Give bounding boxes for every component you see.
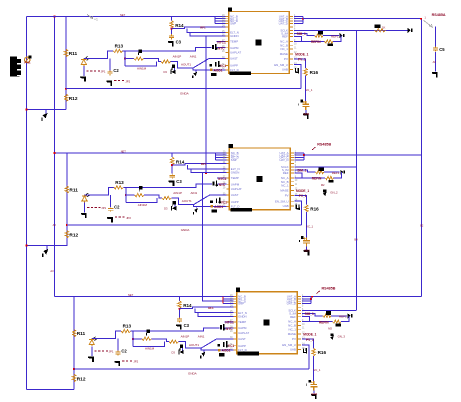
b2 arrow A1: [340, 170, 344, 175]
b3 label MASE net: [303, 333, 316, 337]
op-amp U2 right pins: [275, 151, 298, 208]
b1 power arrow glyph: [42, 110, 48, 121]
svg-text:UAPLAT: UAPLAT: [238, 331, 249, 335]
b3 ghost tick: [317, 291, 320, 294]
op-amp U2 left pins: [223, 151, 242, 208]
b1 label W27 net: [200, 26, 206, 30]
b2 wire W36: [191, 169, 227, 173]
b2 ground C4: [304, 250, 310, 255]
svg-text:UAPM: UAPM: [230, 46, 239, 50]
b1 wire W41a: [294, 40, 325, 42]
b3 junction RF: [179, 308, 181, 310]
svg-text:R14: R14: [176, 159, 185, 164]
b1 label D3: [163, 70, 167, 74]
b1 label D4 net: [218, 47, 225, 51]
b3 label M tick: [328, 327, 332, 331]
wire VB interblock 2-3: [202, 173, 223, 301]
b3 label pin65 net: [228, 344, 234, 348]
b3 dashed link C2: [122, 360, 132, 362]
b1 wire V5 bottom: [305, 76, 307, 101]
svg-text:GN_2: GN_2: [330, 191, 338, 195]
b2 label V5 net: [306, 225, 313, 229]
svg-text:JP2: JP2: [125, 79, 130, 83]
b2 wire RD-RE: [144, 195, 162, 198]
b2 ground C3: [169, 181, 175, 186]
b1 label R380 value: [382, 25, 386, 29]
b3 junction xV Hbot: [73, 368, 75, 370]
svg-text:RF1: RF1: [208, 306, 214, 310]
b3 wire P2: [201, 348, 234, 350]
b1 label RV2: [69, 96, 78, 102]
svg-text:D3: D3: [163, 70, 167, 74]
b2 label MASE net: [296, 189, 309, 193]
b3 label W35 net: [339, 315, 347, 319]
b3 ground C3: [176, 324, 182, 329]
b2 diode D4: [213, 180, 219, 186]
b3 resistor RE: [169, 340, 179, 343]
b1 wire V5 top: [294, 59, 306, 68]
b2 ground D2: [81, 213, 87, 218]
svg-text:SIM_1: SIM_1: [297, 169, 306, 173]
b2 resistor RF: [171, 157, 174, 165]
svg-text:R11: R11: [77, 331, 86, 337]
svg-text:D3: D3: [171, 350, 175, 354]
b1 label H-bot net: [180, 91, 189, 95]
b3 resistor RV2: [72, 374, 75, 382]
b3 label RC: [123, 324, 132, 329]
b3 wire left bus row: [223, 303, 234, 305]
b1 junction RF: [171, 28, 173, 30]
label C5: [439, 47, 445, 52]
svg-text:JP1: JP1: [109, 350, 114, 354]
svg-text:UAPM: UAPM: [238, 326, 247, 330]
b2 wire rail horizontal: [54, 152, 215, 154]
svg-text:JP1: JP1: [101, 206, 106, 210]
op-amp U1 bottom bar: [230, 72, 252, 76]
svg-text:M2: M2: [321, 183, 325, 187]
svg-text:REF: REF: [283, 171, 289, 175]
b1 wire P1: [171, 59, 226, 68]
b2 dashed link C2: [115, 216, 125, 218]
b2 junction rail on V2: [53, 152, 55, 154]
b3 junction P2 orange: [218, 349, 221, 352]
b2 resistor RV2: [65, 231, 68, 239]
b3 label P2 net: [222, 349, 231, 353]
b1 wire C2 stub: [109, 58, 111, 70]
b1 resistor RV1: [64, 49, 67, 57]
svg-text:VC_1: VC_1: [313, 368, 320, 372]
b3 label PV net: [306, 338, 314, 342]
b1 arrow A2: [408, 28, 412, 33]
b1 label P2 net: [214, 68, 223, 72]
b3 wire SCLK long corner: [302, 310, 356, 312]
b2 power arrow glyph: [43, 246, 49, 257]
svg-text:R12: R12: [69, 96, 78, 102]
b3 flag RD: [146, 330, 149, 336]
b1 resistor RC: [113, 49, 123, 52]
b1 ground C2: [106, 81, 112, 86]
b1 wire left bus row: [215, 18, 226, 20]
b3 label JP1: [109, 350, 114, 354]
b3 diode D4: [220, 324, 226, 330]
b2 label RF: [176, 159, 185, 164]
b2 wire P1: [171, 195, 226, 204]
svg-text:EN_SM_U: EN_SM_U: [275, 199, 289, 203]
b1 wire W27: [172, 27, 226, 29]
svg-text:C2: C2: [121, 348, 127, 353]
wire V1 main left vertical: [26, 16, 28, 389]
b3 label JP2: [133, 360, 138, 364]
b2 wire W41b: [334, 172, 342, 178]
svg-text:NET: NET: [121, 149, 127, 153]
svg-text:GD1: GD1: [311, 392, 317, 396]
b3 wire D4 to pin: [225, 327, 234, 329]
b1 junction P2 orange: [210, 69, 213, 72]
b1 label row41 net: [217, 41, 226, 45]
b1 label C3: [176, 40, 182, 45]
svg-text:R14: R14: [183, 303, 192, 308]
b3 wire row41 stub: [225, 321, 234, 323]
b2 label row41 net: [218, 177, 227, 181]
b2 wire SCLK long to V4: [295, 166, 357, 168]
b1 LED D2: [81, 56, 88, 66]
b2 wire W41a: [295, 177, 326, 179]
b1 wire xV vertical: [65, 16, 67, 109]
svg-text:GD1: GD1: [304, 249, 310, 253]
b3 wire left bus vertical: [222, 297, 224, 304]
b2 wire W51: [123, 184, 212, 187]
b2 capacitor C4: [303, 238, 310, 247]
svg-text:MASE: MASE: [280, 52, 288, 56]
label V3 tick: [420, 224, 424, 228]
b3 wire W41b: [341, 316, 349, 322]
b3 label rail net: [128, 293, 134, 297]
b2 label W51 net1: [173, 191, 182, 195]
svg-text:R16: R16: [310, 206, 319, 211]
svg-text:A2: A2: [53, 223, 57, 227]
b3 capacitor C2: [115, 351, 120, 356]
svg-text:UAT_D: UAT_D: [279, 158, 288, 162]
b1 label corner tick: [425, 17, 427, 20]
b3 label W51 net2: [198, 335, 205, 339]
b3 resistor RV1: [72, 330, 75, 338]
svg-text:NC_1: NC_1: [281, 184, 289, 188]
b1 wire UART bus: [302, 16, 304, 23]
b2 label W66 net: [138, 203, 148, 207]
b2 label bold net: [317, 143, 331, 147]
b1 ground D2: [80, 76, 86, 81]
b1 label C4 black: [298, 100, 303, 106]
b3 dashed link D2: [94, 350, 108, 352]
b3 ground C2: [114, 361, 120, 366]
junction H296 left: [311, 296, 313, 298]
b1 flag P1: [172, 64, 175, 70]
b2 flag RD: [139, 186, 142, 192]
b1 label SIM net: [297, 32, 306, 36]
b2 label W51 net2: [191, 191, 198, 195]
b1 wire EN drop: [294, 65, 301, 89]
b1 diode D4: [212, 44, 218, 50]
b1 label PV net: [298, 58, 306, 62]
b2 wire W27: [172, 163, 226, 165]
b1 ground C3: [168, 41, 174, 46]
svg-text:UAST: UAST: [238, 337, 246, 341]
b2 label H-bot net: [181, 228, 190, 232]
b3 label bottom-left black: [219, 353, 225, 356]
b1 dashed link D2: [86, 70, 100, 72]
op-amp U3 left pins: [230, 295, 249, 352]
b1 label rail net: [120, 13, 126, 17]
svg-text:AOUT1: AOUT1: [189, 343, 199, 347]
b3 flag P1: [180, 345, 183, 351]
b1 wire W66: [125, 62, 156, 67]
svg-text:B2: B2: [420, 224, 424, 228]
svg-text:C2: C2: [113, 68, 119, 73]
b2 wire C2 stub: [110, 195, 112, 207]
b3 label C2: [121, 348, 127, 353]
svg-text:REFIN: REFIN: [312, 177, 322, 181]
b1 resistor R380: [375, 29, 386, 32]
svg-text:R12: R12: [69, 233, 78, 239]
svg-text:RS485A: RS485A: [432, 13, 446, 17]
b2 wire left bus row: [216, 152, 227, 154]
label V2 tick 1: [53, 223, 57, 227]
op-amp U3 tab: [236, 288, 240, 292]
svg-text:VC_1: VC_1: [305, 88, 312, 92]
svg-text:R16: R16: [318, 350, 327, 355]
b2 label RC: [115, 180, 124, 185]
b1 capacitor C2: [107, 70, 112, 75]
connector J1: [10, 57, 21, 77]
b3 wire UART out short: [311, 298, 312, 300]
op-amp U2 center mark: [256, 176, 262, 182]
svg-text:EN_SM_U: EN_SM_U: [282, 343, 296, 347]
b3 resistor RD: [142, 337, 152, 340]
b2 junction P2 orange: [211, 205, 214, 208]
b3 wire RF stub: [179, 297, 181, 301]
b3 wire W58a: [92, 331, 121, 339]
b1 wire W35a: [294, 33, 315, 35]
svg-text:MODE_1: MODE_1: [303, 333, 316, 337]
b2 label P2 net: [214, 205, 223, 209]
b1 junction xV Hbot: [65, 88, 67, 90]
b2 wire UART pin 1: [295, 152, 304, 154]
b1 label RG: [310, 70, 319, 75]
svg-text:UAPM: UAPM: [231, 182, 240, 186]
b3 label R2 black: [336, 324, 341, 327]
b3 label D4 net: [226, 327, 233, 331]
svg-text:RF1: RF1: [200, 26, 206, 30]
b3 label W66 net: [145, 347, 155, 351]
b1 resistor RD: [134, 57, 144, 60]
svg-text:+1: +1: [94, 17, 98, 21]
b3 resistor RG: [312, 348, 315, 356]
b1 label R2 black: [328, 43, 333, 46]
b3 label bold net: [322, 286, 336, 290]
b3 wire H-bot: [74, 368, 309, 370]
b1 wire RF stub: [171, 16, 173, 20]
b3 wire W35b: [331, 315, 347, 317]
b3 wire to RD: [133, 338, 142, 340]
b2 wire W58a: [85, 187, 114, 195]
b2 wire left bus vertical: [215, 153, 217, 160]
b2 wire W66: [126, 198, 157, 203]
svg-text:C3: C3: [184, 323, 190, 328]
wire block3 bottom horizontal: [27, 388, 75, 390]
b1 resistor R1: [315, 34, 324, 37]
b1 label bold net: [432, 13, 446, 17]
svg-text:AOUT1: AOUT1: [181, 63, 191, 67]
b3 wire W35a: [302, 314, 323, 316]
svg-text:GN_3: GN_3: [338, 334, 346, 338]
b3 label row41 net: [225, 321, 234, 325]
svg-text:AIN1P: AIN1P: [173, 191, 182, 195]
op-amp U1 right pins: [274, 15, 297, 72]
b3 wire UART pin 3: [302, 300, 311, 302]
b1 jumper EN glyph: [296, 68, 299, 74]
svg-text:GNDN: GNDN: [231, 171, 240, 175]
b1 wire W35b: [323, 35, 339, 37]
b1 label JP2: [125, 79, 130, 83]
b2 label RV1: [69, 188, 78, 194]
svg-text:REF: REF: [290, 315, 296, 319]
b1 diode D3: [171, 69, 176, 74]
svg-text:UAT_D: UAT_D: [279, 21, 288, 25]
svg-text:RF1: RF1: [201, 162, 207, 166]
op-amp U1 body: [229, 12, 290, 74]
b1 wire P2: [193, 68, 226, 70]
b2 wire UART out to V3: [304, 154, 422, 156]
b3 wire NC stub: [302, 317, 310, 322]
wire V3 right vertical: [420, 19, 422, 297]
svg-text:1K: 1K: [382, 25, 386, 29]
svg-text:SNP: SNP: [230, 21, 236, 25]
b3 LED D2: [89, 337, 96, 347]
svg-text:RS485B: RS485B: [322, 286, 336, 290]
b2 flag P1: [173, 201, 176, 207]
b2 label W35 net: [332, 171, 340, 175]
label D1 net: [24, 60, 31, 64]
capacitor C5: [433, 47, 438, 52]
svg-text:SIM_1: SIM_1: [297, 32, 306, 36]
svg-text:AIN1: AIN1: [198, 335, 205, 339]
b3 label C3: [184, 323, 190, 328]
junction V2 top: [53, 15, 55, 17]
b2 label JP2: [126, 216, 131, 220]
b3 label W27 net: [208, 306, 214, 310]
svg-text:A3: A3: [50, 269, 54, 273]
b1 wire D3 stub: [174, 68, 176, 71]
ghost annotation top: [87, 14, 98, 21]
b2 flag P2 corner: [194, 206, 198, 214]
b1 wire D2 to ground: [83, 66, 85, 76]
svg-text:TEMP: TEMP: [230, 40, 238, 44]
svg-text:GD1: GD1: [303, 112, 309, 116]
b3 wire D2 to ground: [91, 346, 93, 356]
svg-text:R13: R13: [123, 324, 132, 329]
b1 dashed link C2: [114, 80, 124, 82]
b2 resistor RG: [305, 205, 308, 213]
b2 label RV2: [69, 233, 78, 239]
b3 label W51 net1: [181, 335, 190, 339]
wire V2 second left vertical: [53, 16, 55, 296]
b3 resistor R1: [323, 314, 332, 317]
svg-text:C3: C3: [176, 40, 182, 45]
b2 wire left bus row: [216, 154, 227, 156]
b2 label D3: [164, 207, 168, 211]
b1 resistor RV2: [64, 94, 67, 102]
b3 wire D3 stub: [182, 348, 184, 351]
svg-text:AIN1M: AIN1M: [145, 347, 155, 351]
b2 wire P2: [194, 205, 227, 207]
b2 wire D2 to ground: [84, 203, 86, 213]
svg-text:FLT_D: FLT_D: [230, 68, 239, 72]
label V2 tick 2: [50, 269, 54, 273]
svg-text:MODE_1: MODE_1: [295, 52, 308, 56]
b2 label W27 net: [201, 162, 207, 166]
svg-text:MASE: MASE: [288, 332, 296, 336]
svg-text:UAPLAT: UAPLAT: [230, 51, 241, 55]
svg-text:FLT_D: FLT_D: [231, 204, 240, 208]
b1 label W35 net: [331, 35, 339, 39]
b3 resistor R2: [333, 320, 342, 323]
b1 label JP1: [101, 69, 106, 73]
b1 wire UART pin 1: [294, 15, 303, 17]
b2 wire W35a: [295, 170, 316, 172]
svg-text:NET: NET: [128, 293, 134, 297]
b1 resistor RF: [170, 21, 173, 29]
b2 label MASE gnd: [330, 191, 338, 195]
b1 wire W51: [123, 48, 212, 51]
b3 diode D3: [179, 350, 184, 355]
op-amp U1 left pins: [222, 15, 241, 72]
b2 resistor RV1: [65, 186, 68, 194]
svg-text:REF: REF: [282, 35, 288, 39]
b1 label C2: [113, 68, 119, 73]
svg-text:PV_1: PV_1: [306, 338, 314, 342]
b2 wire UART pin 3: [295, 157, 304, 159]
b3 wire left bus row: [223, 298, 234, 300]
ground C5: [432, 72, 438, 77]
b2 wire RF stub: [171, 153, 173, 157]
b1 label W66 net: [137, 66, 147, 70]
b3 wire xV vertical: [73, 297, 75, 390]
svg-text:AIN1: AIN1: [190, 54, 197, 58]
b1 label bottom-left black: [211, 73, 217, 76]
b1 capacitor C3: [169, 34, 174, 39]
svg-text:R14: R14: [175, 23, 184, 28]
label V4 tick: [354, 237, 358, 241]
b1 label W51 net1: [173, 54, 182, 58]
b3 label R1 black: [326, 311, 331, 315]
b2 wire EN drop: [295, 201, 302, 225]
b2 label SIM net: [297, 169, 306, 173]
svg-text:MASE: MASE: [280, 188, 288, 192]
b3 wire EN drop: [302, 345, 309, 369]
svg-text:FLT_D: FLT_D: [238, 348, 247, 352]
op-amp U2 bottom bar: [230, 208, 252, 212]
svg-text:AIN1M: AIN1M: [138, 203, 148, 207]
b3 label D3: [171, 350, 175, 354]
svg-text:UAST: UAST: [231, 193, 239, 197]
b1 label W41 net: [311, 40, 321, 44]
b3 wire UART pin 4: [302, 303, 311, 305]
b3 wire UART pin 2: [302, 298, 311, 300]
svg-text:AV: AV: [433, 60, 437, 64]
b2 wire xV vertical: [66, 153, 68, 246]
b2 label rail net: [121, 149, 127, 153]
b3 diode D5: [218, 341, 229, 347]
